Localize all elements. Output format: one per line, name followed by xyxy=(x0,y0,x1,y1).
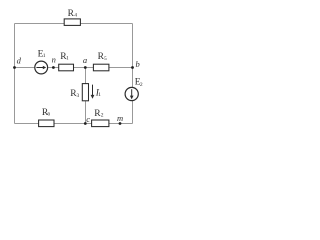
label node a xyxy=(83,55,87,65)
resistor R3 (vertical) xyxy=(82,84,88,101)
wire left (top corner down through d to bottom corner) xyxy=(14,24,16,124)
label node d xyxy=(17,55,22,65)
label node m xyxy=(117,113,123,123)
node c xyxy=(84,122,87,125)
svg-text:1: 1 xyxy=(43,53,46,59)
source E2 (circle with down arrow) xyxy=(125,87,138,100)
label R3 xyxy=(70,89,79,99)
node d xyxy=(13,66,16,69)
resistor R5 xyxy=(93,64,109,71)
node b xyxy=(131,66,134,69)
node m xyxy=(119,122,122,125)
svg-text:c: c xyxy=(86,114,90,124)
label R2 xyxy=(94,109,104,119)
label R4 xyxy=(68,9,78,19)
svg-text:3: 3 xyxy=(77,93,80,99)
svg-text:2: 2 xyxy=(140,82,143,88)
svg-text:6: 6 xyxy=(47,111,50,117)
label I1 xyxy=(95,88,102,98)
svg-text:1: 1 xyxy=(98,92,101,98)
current arrow I1 xyxy=(91,85,95,99)
resistor R1 xyxy=(59,64,74,71)
svg-text:d: d xyxy=(17,55,22,65)
label node n xyxy=(52,55,56,65)
svg-text:4: 4 xyxy=(74,13,77,19)
node a xyxy=(84,66,87,69)
node n xyxy=(52,66,55,69)
svg-text:2: 2 xyxy=(101,113,104,119)
label node c xyxy=(86,114,90,124)
label R6 xyxy=(42,108,51,118)
svg-text:n: n xyxy=(52,55,56,65)
label E1 xyxy=(38,49,46,59)
wire right (b branch: top corner down to bottom corner through E2) xyxy=(132,24,134,124)
resistor R4 xyxy=(64,19,80,26)
svg-text:m: m xyxy=(117,113,123,123)
wire top (left corner to right corner through R4) xyxy=(15,23,133,25)
svg-text:1: 1 xyxy=(66,56,69,62)
source E1 (circle with right arrow) xyxy=(35,61,48,74)
label node b xyxy=(136,59,140,69)
svg-text:5: 5 xyxy=(104,56,107,62)
wire bottom (left corner to right corner through R6, c, R2, m) xyxy=(15,123,133,125)
svg-text:b: b xyxy=(136,59,140,69)
wire middle horizontal (d to b through E1, n, R1, a, R5) xyxy=(15,67,133,69)
label E2 xyxy=(135,78,143,88)
svg-text:a: a xyxy=(83,55,87,65)
resistor R2 xyxy=(92,120,109,127)
wire vertical branch (a down through R3 to c) xyxy=(85,68,87,124)
label R5 xyxy=(98,52,107,62)
resistor R6 xyxy=(39,120,54,127)
label R1 xyxy=(60,52,69,62)
